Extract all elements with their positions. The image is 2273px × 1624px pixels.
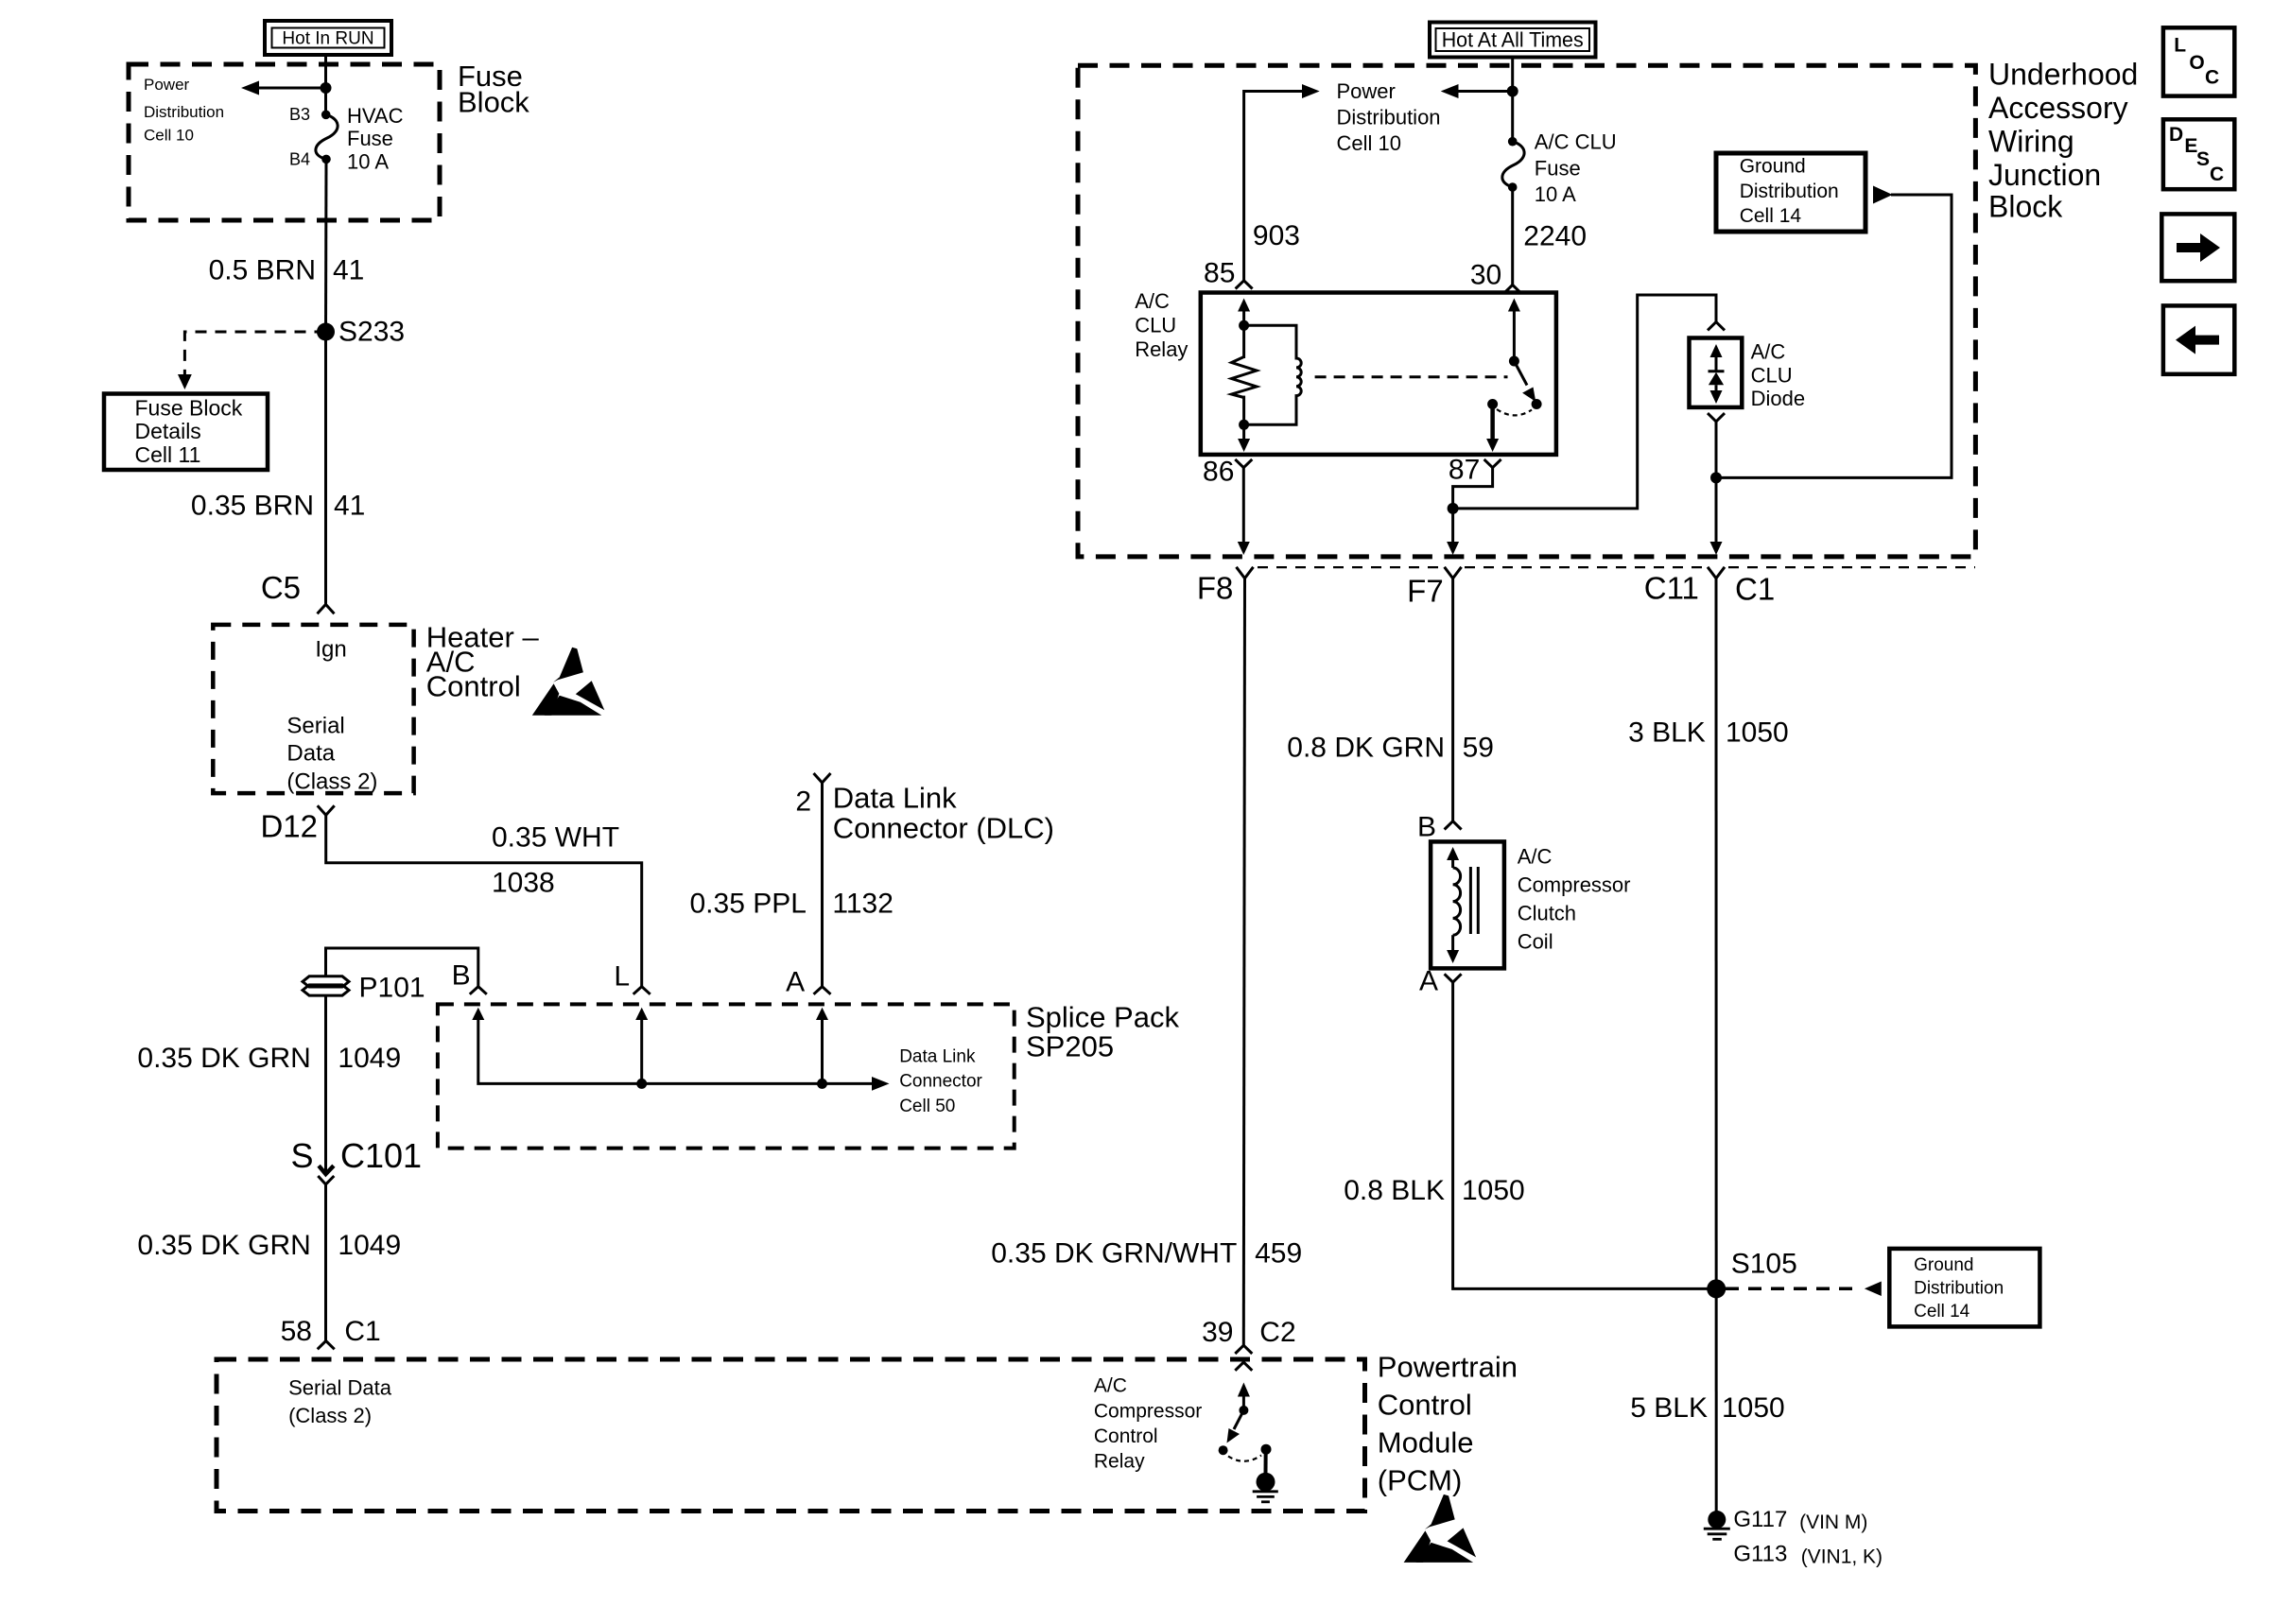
svg-text:Power: Power [1337, 79, 1396, 103]
wire dashed to Ground Distribution Cell 14 [1726, 1287, 1859, 1290]
svg-text:Ground: Ground [1740, 156, 1806, 178]
svg-text:B: B [452, 960, 471, 992]
svg-text:Serial: Serial [286, 714, 344, 739]
svg-text:Cell 11: Cell 11 [135, 442, 201, 467]
node LOC box [2163, 27, 2234, 95]
svg-text:0.8 BLK: 0.8 BLK [1344, 1175, 1445, 1206]
wire relay 87 lead arrow [1490, 405, 1495, 441]
node right-arrow box [2161, 214, 2234, 281]
svg-text:(VIN M): (VIN M) [1799, 1512, 1867, 1533]
relay A/C compressor control (inside PCM) [1242, 1396, 1245, 1410]
relay actuation dashed line [1315, 375, 1508, 378]
svg-text:Cell 10: Cell 10 [1337, 131, 1401, 155]
svg-text:0.35 BRN: 0.35 BRN [191, 490, 314, 521]
component P101 grommet [303, 973, 425, 1004]
svg-text:0.35 DK GRN: 0.35 DK GRN [137, 1230, 310, 1261]
svg-text:(Class 2): (Class 2) [286, 769, 377, 795]
node DESC box [2163, 119, 2234, 189]
svg-text:41: 41 [334, 490, 365, 521]
svg-text:HVAC: HVAC [347, 104, 404, 128]
svg-text:C1: C1 [344, 1316, 380, 1347]
svg-text:2: 2 [795, 786, 811, 818]
svg-text:Diode: Diode [1751, 387, 1805, 410]
svg-text:87: 87 [1449, 455, 1480, 486]
svg-text:A/C: A/C [1518, 845, 1553, 869]
svg-text:86: 86 [1203, 456, 1234, 487]
component A/C CLU Relay box [1201, 293, 1556, 455]
node diode junction [1710, 472, 1722, 483]
wire relay 86 lead arrow [1242, 424, 1245, 440]
svg-text:(PCM): (PCM) [1378, 1464, 1463, 1497]
wire P101 to splice B [326, 948, 478, 987]
svg-text:Distribution: Distribution [144, 103, 224, 121]
wire F8 to PCM 39/C2 (0.35 DK GRN/WHT 459) [1243, 579, 1244, 1345]
wire hot feed down [1511, 58, 1514, 142]
relay coil pin 85 lead [1242, 309, 1245, 358]
svg-text:0.35 PPL: 0.35 PPL [690, 889, 807, 920]
svg-text:S105: S105 [1731, 1248, 1797, 1279]
svg-text:C5: C5 [261, 570, 301, 605]
svg-text:A/C: A/C [1135, 289, 1170, 313]
component A/C Compressor Clutch Coil [1431, 841, 1504, 968]
svg-text:10 A: 10 A [347, 150, 389, 174]
svg-text:B3: B3 [289, 105, 310, 124]
svg-text:Control: Control [1378, 1389, 1472, 1422]
component Powertrain Control Module (dashed box) [217, 1359, 1365, 1512]
underhood accessory wiring junction block (dashed box) [1078, 65, 1975, 557]
connector row line (thin dashed) [1258, 566, 1441, 568]
svg-text:Cell 14: Cell 14 [1914, 1302, 1970, 1322]
svg-text:Relay: Relay [1135, 337, 1188, 361]
svg-text:Hot In RUN: Hot In RUN [282, 29, 373, 49]
svg-text:Control: Control [1094, 1425, 1158, 1447]
wire 87 to F7 and diode link [1453, 468, 1493, 509]
svg-text:Ign: Ign [315, 637, 346, 663]
fuse A/C CLU Fuse 10 A [1508, 137, 1518, 147]
svg-text:Distribution: Distribution [1337, 106, 1441, 130]
svg-text:C11: C11 [1644, 571, 1699, 606]
component A/C CLU Diode [1690, 338, 1743, 407]
ESD symbol (PCM) [1404, 1494, 1477, 1563]
svg-text:C: C [2210, 164, 2224, 185]
pin diode top connector [1708, 322, 1725, 331]
svg-text:5 BLK: 5 BLK [1630, 1392, 1708, 1424]
svg-text:L: L [2174, 35, 2186, 57]
svg-text:Powertrain: Powertrain [1378, 1351, 1518, 1384]
svg-text:A: A [786, 967, 805, 998]
wire splice arrow A [821, 1020, 824, 1083]
svg-text:Fuse Block: Fuse Block [135, 396, 243, 421]
wire splice arrow L [640, 1020, 643, 1083]
svg-text:903: 903 [1253, 220, 1300, 251]
node Hot In RUN [265, 21, 391, 55]
svg-text:Compressor: Compressor [1094, 1400, 1202, 1422]
svg-text:Block: Block [458, 86, 529, 119]
svg-text:Wiring: Wiring [1988, 124, 2074, 158]
svg-text:Ground: Ground [1914, 1255, 1973, 1275]
svg-text:G117: G117 [1733, 1507, 1787, 1532]
svg-text:1049: 1049 [338, 1043, 401, 1074]
svg-text:Cell 14: Cell 14 [1740, 205, 1802, 227]
svg-text:30: 30 [1470, 260, 1501, 291]
svg-text:L: L [614, 961, 630, 993]
svg-text:39: 39 [1202, 1317, 1233, 1348]
svg-text:O: O [2189, 52, 2204, 74]
ESD symbol (heater) [532, 648, 605, 716]
svg-text:CLU: CLU [1751, 363, 1793, 387]
svg-text:Cell 50: Cell 50 [899, 1097, 955, 1116]
node left-arrow box [2163, 305, 2234, 373]
wire 0.8 DK GRN 59 (F7 to coil B) [1451, 579, 1454, 821]
svg-text:1050: 1050 [1462, 1175, 1525, 1206]
node S233 [317, 323, 335, 341]
wire arrow to Power Distribution Cell 10 (left) [257, 87, 326, 90]
svg-text:1038: 1038 [492, 868, 555, 899]
svg-text:1132: 1132 [832, 889, 894, 920]
svg-text:Serial Data: Serial Data [288, 1376, 392, 1400]
wire 0.35 DK GRN 1049 (lower) [324, 1184, 327, 1341]
svg-text:Hot At All Times: Hot At All Times [1442, 28, 1584, 52]
svg-text:Underhood: Underhood [1988, 58, 2138, 92]
wire 0.5 BRN 41 [324, 159, 328, 332]
component Splice Pack SP205 (dashed box) [438, 1004, 1015, 1148]
svg-text:0.35 DK GRN: 0.35 DK GRN [137, 1043, 310, 1074]
svg-text:Data Link: Data Link [899, 1046, 976, 1066]
svg-text:(Class 2): (Class 2) [288, 1404, 372, 1427]
svg-text:Data: Data [286, 741, 335, 767]
node splice junction L [636, 1079, 647, 1089]
wire 0.8 BLK 1050 (coil A to S105) [1453, 982, 1717, 1288]
node junction on hot feed [321, 82, 332, 94]
wire to Ground Distribution Cell 14 (top) [1716, 195, 1952, 477]
wire DLC to splice A (0.35 PPL 1132) [821, 783, 824, 987]
svg-text:F8: F8 [1197, 571, 1234, 606]
wire 0.35 DK GRN 1049 (upper) [324, 995, 327, 1174]
svg-text:Fuse: Fuse [347, 127, 393, 150]
wire from Hot In RUN to fuse block [324, 55, 327, 114]
wire splice bus [478, 1018, 875, 1083]
fuse HVAC Fuse 10 A (element) [321, 111, 331, 120]
svg-text:Connector (DLC): Connector (DLC) [833, 812, 1054, 845]
svg-text:Relay: Relay [1094, 1451, 1145, 1473]
svg-text:C2: C2 [1259, 1317, 1295, 1348]
svg-text:0.8 DK GRN: 0.8 DK GRN [1287, 733, 1445, 764]
component Heater - A/C Control (dashed box) [213, 625, 413, 793]
relay coil windings [1244, 325, 1302, 424]
svg-text:C1: C1 [1735, 572, 1775, 607]
wire 3 BLK 1050 (C11 down) [1715, 579, 1718, 1512]
svg-text:10 A: 10 A [1535, 182, 1576, 206]
svg-text:SP205: SP205 [1026, 1030, 1114, 1063]
node splice junction A [817, 1079, 827, 1089]
svg-text:0.35 DK GRN/WHT: 0.35 DK GRN/WHT [991, 1238, 1237, 1270]
svg-text:S: S [2196, 148, 2210, 170]
node S105 [1707, 1279, 1726, 1298]
relay switch contact 87 [1487, 399, 1498, 409]
svg-text:1049: 1049 [338, 1230, 401, 1261]
svg-text:B: B [1417, 812, 1436, 843]
pin diode bottom connector [1708, 413, 1725, 422]
wire arrow left to Power Distribution [1456, 90, 1513, 93]
svg-text:G113: G113 [1733, 1541, 1787, 1566]
svg-text:Junction: Junction [1988, 158, 2101, 192]
svg-text:S233: S233 [338, 317, 405, 348]
node Fuse Block Details Cell 11 [104, 394, 268, 471]
svg-text:85: 85 [1204, 258, 1235, 289]
svg-text:Splice Pack: Splice Pack [1026, 1001, 1179, 1034]
svg-text:S: S [290, 1136, 313, 1175]
svg-text:C: C [2205, 67, 2219, 89]
relay switch blade [1514, 361, 1527, 386]
ground (PCM internal) [1264, 1449, 1268, 1474]
wire 0.35 BRN 41 [324, 332, 327, 604]
fuse block (dashed box) [129, 64, 440, 220]
svg-text:Cell 10: Cell 10 [144, 127, 194, 145]
node junction hot feed [1507, 86, 1518, 97]
wire splice arrow B [472, 1008, 484, 1020]
svg-text:3 BLK: 3 BLK [1628, 717, 1706, 748]
svg-text:A: A [1419, 966, 1438, 997]
svg-text:41: 41 [333, 255, 364, 286]
svg-text:Power: Power [144, 76, 190, 94]
svg-text:B4: B4 [289, 150, 310, 169]
svg-text:(VIN1, K): (VIN1, K) [1801, 1546, 1883, 1567]
node Hot At All Times [1430, 23, 1596, 58]
wire 86 to F8 [1242, 468, 1245, 543]
svg-text:Compressor: Compressor [1518, 873, 1631, 897]
wire 903 from relay 85 with right arrow [1244, 92, 1304, 281]
svg-text:0.5 BRN: 0.5 BRN [209, 255, 316, 286]
svg-text:Accessory: Accessory [1988, 91, 2128, 125]
svg-text:A/C CLU: A/C CLU [1535, 130, 1617, 154]
svg-text:0.35 WHT: 0.35 WHT [492, 822, 619, 854]
svg-text:A/C: A/C [1094, 1375, 1127, 1397]
wire diode to C11 [1715, 422, 1718, 543]
svg-text:Control: Control [426, 670, 521, 703]
svg-text:1050: 1050 [1726, 717, 1789, 748]
resistor (relay coil suppression) [1232, 357, 1258, 398]
svg-text:59: 59 [1463, 733, 1494, 764]
svg-text:2240: 2240 [1523, 221, 1587, 252]
svg-text:P101: P101 [359, 973, 425, 1004]
svg-text:F7: F7 [1407, 574, 1444, 609]
svg-text:459: 459 [1255, 1238, 1302, 1270]
svg-text:Data Link: Data Link [833, 781, 957, 814]
svg-text:Connector: Connector [899, 1072, 982, 1092]
svg-text:1050: 1050 [1722, 1392, 1785, 1424]
svg-text:Fuse: Fuse [1535, 156, 1581, 180]
svg-text:Block: Block [1988, 190, 2063, 224]
svg-text:58: 58 [281, 1316, 312, 1347]
svg-text:Coil: Coil [1518, 930, 1553, 954]
ground G117 / G113 [1708, 1511, 1726, 1529]
node Ground Distribution Cell 14 (top box) [1716, 153, 1865, 232]
svg-text:D12: D12 [260, 809, 318, 844]
svg-text:D: D [2169, 124, 2183, 146]
svg-text:C101: C101 [340, 1136, 422, 1175]
svg-text:A/C: A/C [1751, 340, 1786, 364]
svg-text:Distribution: Distribution [1740, 181, 1839, 202]
wire D12 to splice L (0.35 WHT 1038) [326, 815, 642, 986]
node Ground Distribution Cell 14 (S105 box) [1889, 1249, 2039, 1327]
svg-text:Details: Details [135, 419, 201, 443]
svg-text:Clutch: Clutch [1518, 902, 1576, 925]
wire dashed to Fuse Block Details [184, 332, 325, 376]
svg-text:CLU: CLU [1135, 314, 1176, 337]
svg-text:Distribution: Distribution [1914, 1279, 2004, 1299]
relay switch pin 30 lead [1513, 309, 1516, 361]
wire 2240 [1511, 187, 1514, 285]
svg-text:Module: Module [1378, 1426, 1474, 1460]
